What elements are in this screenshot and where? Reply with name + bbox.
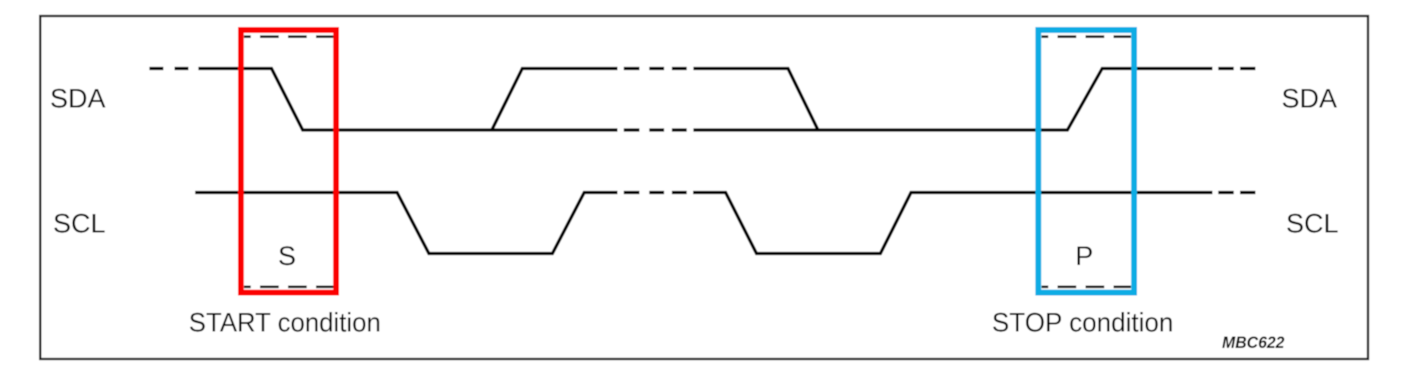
wire: SDA high break dashes <box>624 67 687 70</box>
wire: SCL second low pulse then high to right <box>693 193 1212 254</box>
svg-text:SDA: SDA <box>1282 84 1338 114</box>
START condition box (red) <box>241 30 336 293</box>
wire: SCL trailing dashes <box>1218 191 1255 194</box>
wire: SDA high then falling edge (START) then low baseline <box>198 69 617 131</box>
dashed low rail in START box <box>244 285 334 288</box>
wire: SDA pulse rising edge and high top (left part) <box>492 69 618 131</box>
wire: SDA trailing dashes <box>1218 67 1255 70</box>
wire: SCL high break dashes <box>624 191 687 194</box>
svg-text:MBC622: MBC622 <box>1222 333 1285 352</box>
STOP condition box (blue) <box>1038 30 1134 293</box>
wire: SDA low break dashes <box>624 128 687 131</box>
wire: SDA pulse high top (right part) and falling edge <box>693 69 818 131</box>
wire: SCL high, low pulse, back to high <box>195 193 617 254</box>
wire: SDA leading dashes <box>149 67 188 70</box>
svg-text:START condition: START condition <box>189 308 381 338</box>
dashed high rail in START box <box>244 35 334 38</box>
dashed high rail in STOP box <box>1042 35 1132 38</box>
svg-text:SCL: SCL <box>1286 209 1339 239</box>
svg-text:S: S <box>278 241 296 271</box>
svg-text:SDA: SDA <box>50 84 106 114</box>
wire: SDA low baseline then rising edge (STOP) then high <box>693 69 1212 131</box>
svg-text:P: P <box>1075 241 1093 271</box>
svg-text:SCL: SCL <box>53 209 106 239</box>
svg-text:STOP condition: STOP condition <box>992 308 1174 338</box>
dashed low rail in STOP box <box>1042 285 1132 288</box>
